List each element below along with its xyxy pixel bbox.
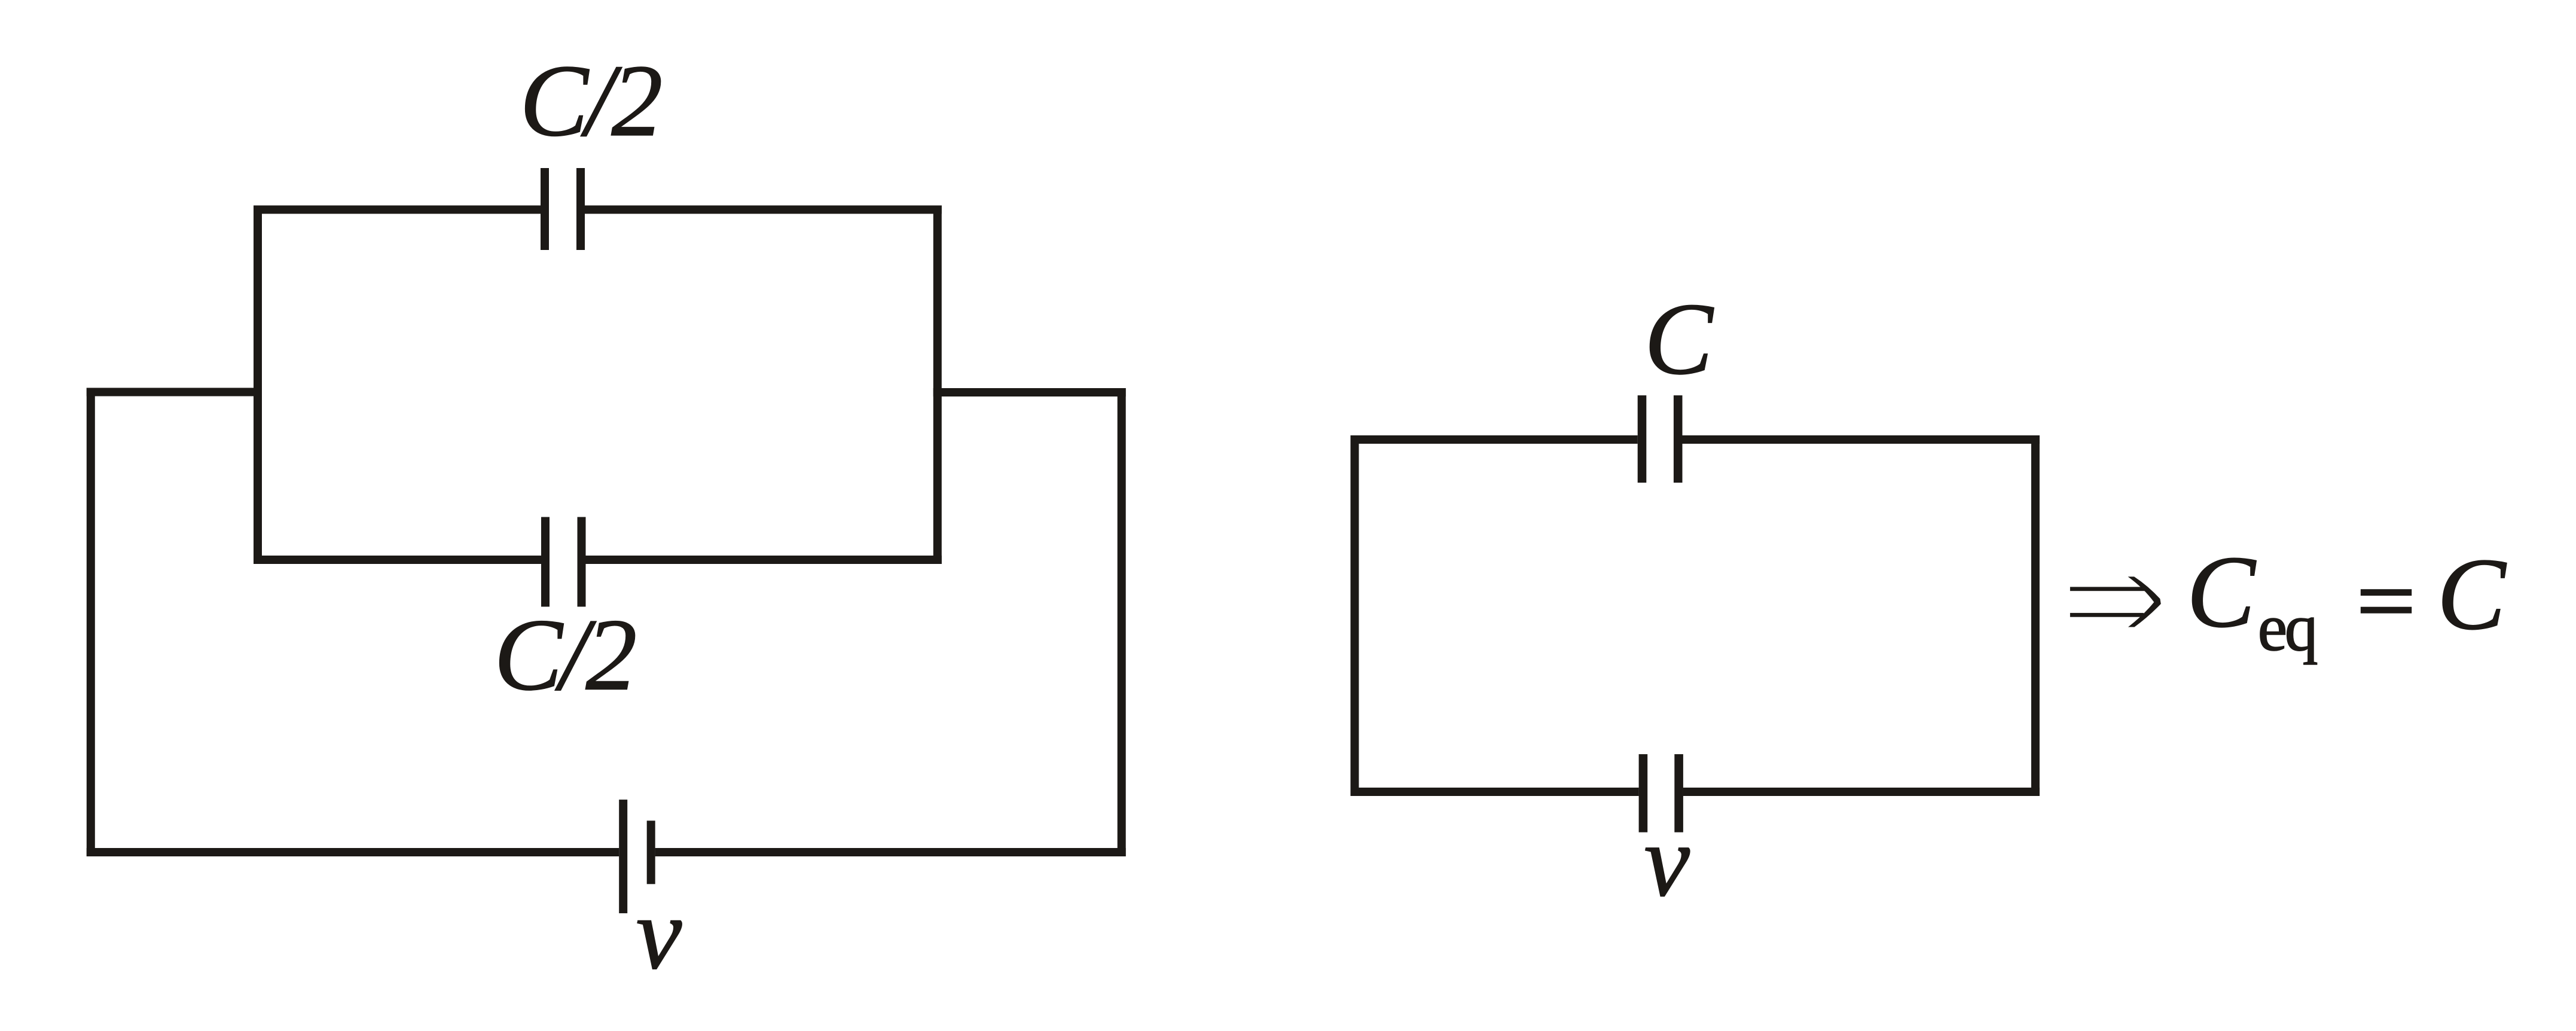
- wire: right circuit right edge: [2031, 435, 2040, 796]
- label C (right-hand side of equation): [2437, 538, 2507, 651]
- wire: left circuit inner loop bottom edge, right of C2: [586, 556, 942, 564]
- wire: outer loop left edge: [87, 388, 95, 856]
- wire: outer loop top-right stub from inner loop to node B: [933, 388, 1126, 396]
- label Ceq (equivalent capacitance): [2187, 535, 2317, 665]
- wire: left circuit inner loop top edge, left of C1: [254, 206, 541, 214]
- wire: left circuit inner loop right edge: [933, 206, 942, 565]
- wire: outer loop top-left stub from node A to inner loop: [87, 388, 262, 396]
- capacitor C3 (C, top of right circuit): [1638, 395, 1683, 483]
- wire: left circuit inner loop left edge: [254, 206, 262, 565]
- svg-text:v: v: [636, 877, 682, 991]
- svg-text:eq: eq: [2258, 591, 2317, 665]
- wire: left circuit inner loop bottom edge, left of C2: [254, 556, 541, 564]
- label v (source V2): [1644, 804, 1690, 918]
- wire: right circuit top edge, left of C3: [1351, 435, 1638, 444]
- wire: outer loop bottom edge, left of source V1: [87, 848, 619, 856]
- label C (value of C3): [1644, 282, 1714, 396]
- svg-text:C: C: [2437, 538, 2507, 651]
- label C/2 (value of C1): [520, 44, 661, 158]
- wire: left circuit inner loop top edge, right of C1: [585, 206, 942, 214]
- wire: right circuit top edge, right of C3: [1683, 435, 2040, 444]
- implication arrow (double arrow =>): [2070, 576, 2161, 627]
- voltage source V2 (v, bottom of right circuit): [1639, 754, 1683, 832]
- wire: outer loop bottom edge, right of source V1: [655, 848, 1126, 856]
- wire: right circuit left edge: [1351, 435, 1359, 796]
- wire: right circuit bottom edge, left of source V2: [1351, 788, 1639, 796]
- voltage source V1 (v): long and short plates: [619, 800, 655, 913]
- svg-text:C/2: C/2: [494, 599, 635, 712]
- label C/2 (value of C2): [494, 599, 635, 712]
- svg-text:v: v: [1644, 804, 1690, 918]
- label v (source V1): [636, 877, 682, 991]
- svg-text:C/2: C/2: [520, 44, 661, 158]
- capacitor C2 (C/2, bottom): [541, 517, 586, 607]
- svg-text:C: C: [1644, 282, 1714, 396]
- capacitor C1 (C/2, top): [541, 168, 585, 250]
- svg-text:C: C: [2187, 535, 2257, 649]
- wire: right circuit bottom edge, right of source V2: [1683, 788, 2040, 796]
- wire: outer loop right edge: [1118, 388, 1126, 856]
- equals sign: [2361, 589, 2412, 613]
